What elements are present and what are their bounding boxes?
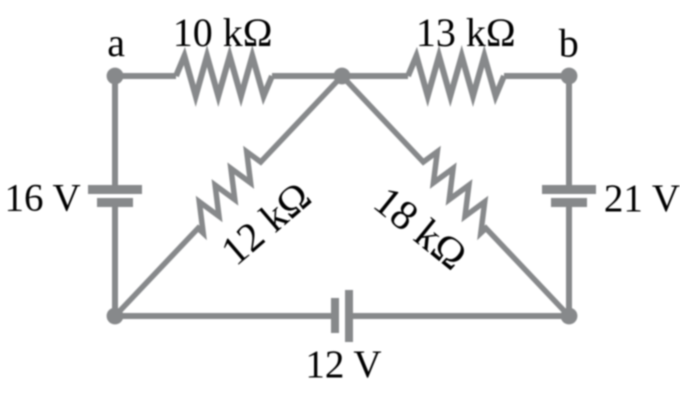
svg-text:16 V: 16 V [4, 177, 80, 220]
svg-text:21 V: 21 V [604, 177, 680, 220]
svg-text:b: b [559, 21, 579, 66]
svg-text:12 kΩ: 12 kΩ [212, 172, 320, 273]
svg-text:10 kΩ: 10 kΩ [173, 10, 273, 55]
svg-text:12 V: 12 V [305, 343, 381, 386]
svg-text:13 kΩ: 13 kΩ [416, 10, 516, 55]
svg-text:a: a [107, 20, 125, 65]
